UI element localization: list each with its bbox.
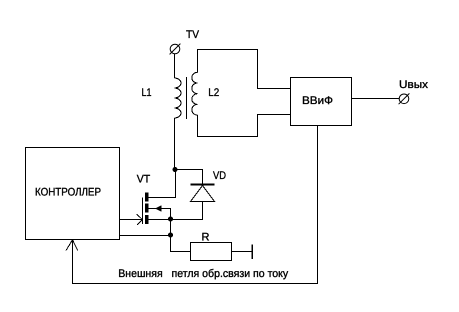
- node drain junction: [173, 167, 178, 172]
- wire TV terminal to L1: [174, 54, 176, 78]
- wire drain lead: [149, 170, 176, 198]
- terminal current sense bar: [251, 245, 253, 260]
- wire controller gate drive: [120, 219, 143, 221]
- terminal Uvyh: [399, 93, 410, 104]
- transistor VT gate bar: [142, 198, 143, 225]
- inductor L2 secondary winding: [192, 72, 198, 115]
- svg-text:ВВиФ: ВВиФ: [302, 95, 333, 107]
- node sense junction: [168, 233, 173, 238]
- svg-text:L1: L1: [142, 87, 152, 99]
- wire drain node to diode cathode: [175, 170, 203, 184]
- svg-text:Uвых: Uвых: [399, 79, 429, 91]
- resistor R: [191, 243, 232, 261]
- svg-text:КОНТРОЛЛЕР: КОНТРОЛЛЕР: [35, 186, 101, 198]
- svg-text:TV: TV: [186, 29, 200, 41]
- wire L1 bottom to drain node: [174, 118, 176, 170]
- wire L2 top to rectifier input: [198, 50, 291, 89]
- arrow body lead: [155, 205, 162, 212]
- wire source node to sense node: [170, 220, 172, 236]
- svg-text:Внешняя петля обр.связи по т: Внешняя петля обр.связи по току: [118, 268, 288, 280]
- wire feedback loop from rectifier to controller: [73, 126, 318, 284]
- wire diode anode to source node: [171, 202, 203, 220]
- wire L2 bottom to rectifier input: [198, 115, 291, 137]
- svg-text:R: R: [202, 231, 210, 243]
- inductor L1 primary winding: [175, 78, 182, 118]
- diode VD cathode bar: [191, 184, 215, 186]
- transistor VT body bar: [145, 204, 149, 213]
- wire source lead: [149, 219, 171, 221]
- wire controller current sense input: [120, 235, 171, 237]
- wire rectifier output: [352, 98, 400, 100]
- transformer core: [186, 77, 188, 119]
- transistor VT drain bar: [145, 193, 149, 202]
- transistor VT source bar: [145, 215, 149, 224]
- svg-text:VD: VD: [213, 170, 226, 182]
- svg-text:VT: VT: [137, 174, 151, 186]
- svg-text:L2: L2: [208, 87, 219, 99]
- wire sense node to resistor: [171, 236, 191, 252]
- diode VD triangle: [191, 186, 215, 202]
- wire body lead: [149, 209, 171, 220]
- node source junction: [168, 217, 173, 222]
- arrow gate drive: [137, 214, 143, 225]
- block U1 BBiF rectifier-filter: [291, 78, 352, 126]
- wire resistor right lead: [232, 251, 253, 253]
- block controller: [26, 148, 120, 240]
- terminal TV: [170, 44, 181, 55]
- arrow into controller: [66, 240, 78, 251]
